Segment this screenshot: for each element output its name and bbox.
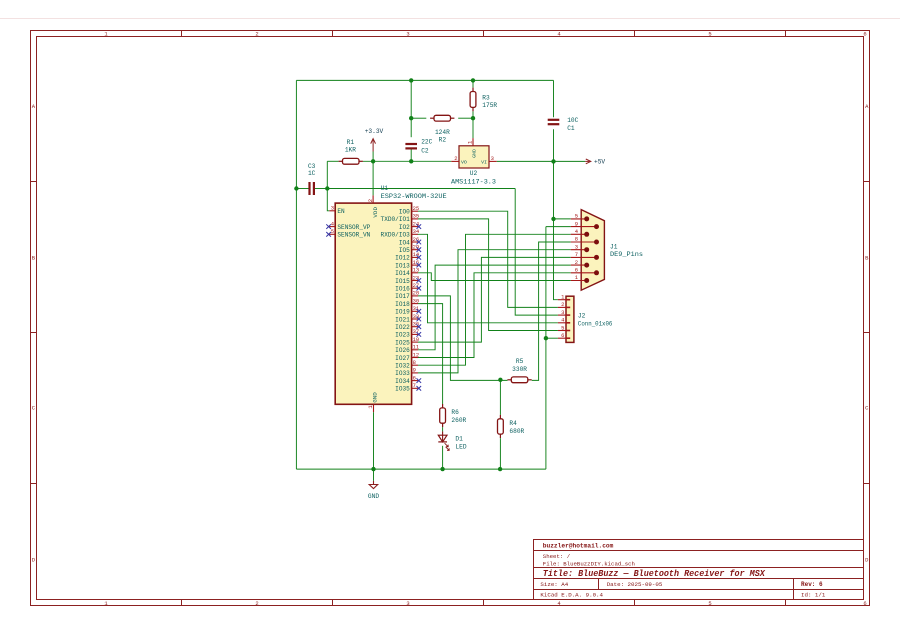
- wire R3 top stem: [472, 80, 474, 87]
- U1 right-side pins: [412, 211, 418, 388]
- wire +3.3V symbol stem: [372, 152, 374, 162]
- connector J2 Conn_01x06 body: [566, 296, 574, 342]
- junction EN node: [325, 186, 329, 190]
- no-connect U1 IO19: [417, 309, 422, 314]
- svg-text:3: 3: [406, 31, 409, 38]
- svg-text:SENSOR_VN: SENSOR_VN: [337, 232, 370, 239]
- svg-text:10C: 10C: [567, 117, 578, 124]
- svg-text:11: 11: [413, 344, 420, 351]
- resistor R6: [440, 404, 446, 427]
- U1 VDD pin top: [372, 195, 374, 203]
- svg-text:VO: VO: [461, 160, 467, 166]
- svg-text:IO27: IO27: [395, 355, 410, 362]
- svg-text:22C: 22C: [421, 138, 432, 145]
- svg-text:30: 30: [413, 297, 420, 304]
- no-connect U1 IO13: [417, 263, 422, 268]
- svg-text:ESP32-WROOM-32UE: ESP32-WROOM-32UE: [381, 193, 447, 200]
- no-connect U1 SENSOR_VP: [326, 224, 331, 229]
- junction +5V rail: [551, 159, 555, 163]
- resistor R5: [507, 377, 531, 383]
- no-connect U1 IO21: [417, 317, 422, 322]
- svg-text:IO18: IO18: [395, 301, 410, 308]
- svg-text:D1: D1: [455, 436, 463, 443]
- wire +5V down to J2 pin1: [554, 161, 558, 299]
- resistor R4: [498, 415, 504, 438]
- svg-text:IO23: IO23: [395, 332, 410, 339]
- svg-text:AMS1117-3.3: AMS1117-3.3: [451, 178, 496, 185]
- wire R2 right to R3 node: [458, 117, 473, 119]
- U2 pin 1 GND top: [472, 138, 474, 146]
- svg-text:680R: 680R: [509, 428, 524, 435]
- svg-text:IO13: IO13: [395, 262, 410, 269]
- capacitor C2: [405, 144, 417, 148]
- svg-text:LED: LED: [455, 444, 466, 451]
- wire EN to J2 pin3: [515, 189, 558, 316]
- svg-text:KiCad E.D.A. 9.0.4: KiCad E.D.A. 9.0.4: [540, 592, 603, 599]
- svg-text:1KR: 1KR: [345, 147, 356, 154]
- wire GND bottom rail: [296, 468, 546, 470]
- svg-text:12: 12: [413, 351, 420, 358]
- wire IO26 to DE9 pin2: [418, 265, 571, 350]
- wire +3.3V rail: [363, 160, 451, 162]
- power symbol GND: [369, 481, 378, 489]
- svg-text:5: 5: [708, 31, 711, 38]
- regulator U2 AMS1117-3.3 body: [459, 146, 489, 168]
- no-connect U1 IO2: [417, 224, 422, 229]
- wire R1 left drop to EN node: [326, 161, 328, 188]
- svg-text:35: 35: [413, 213, 420, 220]
- svg-text:2: 2: [561, 301, 564, 308]
- junction C2 bottom: [409, 159, 413, 163]
- svg-text:25: 25: [413, 205, 420, 212]
- wire U1 GND pin to rail: [373, 412, 375, 469]
- wire EN node down to EN pin: [327, 189, 329, 211]
- junction R5 left: [498, 378, 502, 382]
- wire C2 bottom stem: [410, 149, 412, 161]
- svg-text:IO35: IO35: [395, 386, 410, 393]
- svg-text:28: 28: [413, 290, 420, 297]
- svg-text:C2: C2: [421, 147, 429, 154]
- wire C1 top stem: [553, 80, 555, 117]
- svg-text:8: 8: [413, 359, 416, 366]
- svg-text:8: 8: [575, 236, 578, 243]
- wire R6 to D1: [442, 427, 444, 431]
- wire IO18 to R6: [418, 304, 443, 404]
- svg-text:RXD0/IO3: RXD0/IO3: [381, 232, 411, 239]
- no-connect U1 IO35: [417, 386, 422, 391]
- svg-text:R4: R4: [509, 420, 517, 427]
- svg-text:5: 5: [708, 600, 711, 607]
- svg-text:1C: 1C: [308, 170, 316, 177]
- no-connect U1 IO23: [417, 332, 422, 337]
- U1 left-side pins EN SENSOR_VP SENSOR_VN: [329, 211, 335, 235]
- svg-text:2: 2: [367, 199, 374, 202]
- wire C3 right to EN node: [315, 188, 328, 190]
- svg-text:6: 6: [561, 332, 564, 339]
- wire IO0 to J2 pin2: [418, 211, 558, 307]
- svg-text:IO32: IO32: [395, 363, 410, 370]
- capacitor C1: [548, 120, 560, 124]
- wire GND top rail: [296, 79, 553, 81]
- junction R3 top: [471, 78, 475, 82]
- svg-text:IO25: IO25: [395, 339, 410, 346]
- junction +3.3V rail: [371, 159, 375, 163]
- wire IO17 to R5 left: [418, 296, 508, 381]
- wire rail to GND symbol: [373, 469, 375, 481]
- svg-text:3: 3: [331, 205, 334, 212]
- svg-text:IO4: IO4: [399, 239, 410, 246]
- junction U1 GND: [371, 467, 375, 471]
- connector J1 pins: [571, 219, 597, 281]
- svg-text:13: 13: [413, 267, 420, 274]
- svg-text:5: 5: [331, 228, 334, 235]
- wire R1 left lead link: [327, 160, 338, 162]
- svg-text:124R: 124R: [435, 129, 450, 136]
- svg-text:IO14: IO14: [395, 270, 410, 277]
- wire C2 node to R2 left: [411, 117, 426, 119]
- svg-text:IO15: IO15: [395, 278, 410, 285]
- power symbol +3.3V: [371, 139, 376, 152]
- no-connect U1 IO12: [417, 255, 422, 260]
- led D1: [438, 431, 449, 450]
- no-connect U1 IO4: [417, 240, 422, 245]
- svg-text:Rev: 6: Rev: 6: [801, 581, 823, 588]
- svg-text:GND: GND: [472, 149, 478, 158]
- wire TXD0/IO1 to J2 pin5: [418, 219, 558, 331]
- svg-text:U1: U1: [381, 185, 389, 192]
- no-connect U1 IO16: [417, 286, 422, 291]
- svg-text:6: 6: [863, 31, 866, 38]
- svg-text:2: 2: [575, 259, 578, 266]
- wire C2 top stem: [410, 80, 412, 137]
- svg-text:6: 6: [575, 267, 578, 274]
- svg-text:3: 3: [406, 600, 409, 607]
- svg-text:Conn_01x06: Conn_01x06: [578, 320, 613, 327]
- svg-text:buzzler@hotmail.com: buzzler@hotmail.com: [543, 542, 614, 549]
- svg-text:3: 3: [491, 155, 494, 162]
- svg-text:IO21: IO21: [395, 316, 410, 323]
- svg-text:6: 6: [863, 600, 866, 607]
- svg-text:2: 2: [255, 600, 258, 607]
- svg-text:IO34: IO34: [395, 378, 410, 385]
- svg-text:9: 9: [575, 220, 578, 227]
- wire U2 VI to +5V arrow: [497, 160, 586, 162]
- svg-text:U2: U2: [470, 170, 478, 177]
- junction C2 top: [409, 78, 413, 82]
- junction R2 left: [409, 116, 413, 120]
- svg-text:VDD: VDD: [372, 207, 379, 218]
- junction D1 cathode: [440, 467, 444, 471]
- svg-text:10: 10: [413, 336, 420, 343]
- no-connect U1 SENSOR_VN: [326, 232, 331, 237]
- wire RXD0/IO3 to J2 pin4: [418, 234, 558, 322]
- wire GND to C3 left: [296, 188, 309, 190]
- svg-text:J2: J2: [578, 313, 586, 320]
- wire D1 to GND rail: [442, 446, 444, 469]
- svg-text:Title: BlueBuzz — Bluetooth Re: Title: BlueBuzz — Bluetooth Receiver for…: [543, 569, 766, 579]
- svg-text:Size: A4: Size: A4: [540, 581, 568, 588]
- svg-text:J1: J1: [610, 244, 618, 251]
- junction J2 pin6: [544, 336, 548, 340]
- ic U1 ESP32-WROOM-32UE body: [335, 203, 411, 404]
- wire R3 bottom to U2 pin1: [472, 111, 474, 138]
- svg-text:+5V: +5V: [594, 159, 605, 166]
- no-connect U1 IO15: [417, 278, 422, 283]
- wire C1 bottom stem: [553, 129, 555, 161]
- capacitor C3: [310, 182, 314, 195]
- resistor R3: [470, 88, 476, 112]
- svg-text:34: 34: [413, 228, 420, 235]
- U2 pin 3 VI: [489, 160, 497, 162]
- svg-text:SENSOR_VP: SENSOR_VP: [337, 224, 370, 231]
- svg-text:IO12: IO12: [395, 255, 410, 262]
- no-connect U1 IO34: [417, 378, 422, 383]
- svg-text:175R: 175R: [482, 102, 497, 109]
- svg-text:EN: EN: [337, 208, 345, 215]
- wire GND vertical to DE9 pin9: [545, 227, 547, 470]
- svg-text:R2: R2: [439, 136, 447, 143]
- wire IO33 to DE9 pin3: [418, 250, 571, 373]
- svg-text:IO17: IO17: [395, 293, 410, 300]
- svg-text:330R: 330R: [512, 366, 527, 373]
- svg-text:7: 7: [575, 251, 578, 258]
- svg-text:R6: R6: [451, 409, 459, 416]
- wire IO32 to DE9 pin4: [418, 234, 571, 365]
- U1 GND pin bottom: [373, 404, 375, 412]
- wire IO14 to DE9 pin1: [418, 273, 571, 281]
- svg-text:IO33: IO33: [395, 370, 410, 377]
- svg-text:C3: C3: [308, 163, 316, 170]
- svg-text:9: 9: [413, 367, 416, 374]
- svg-text:5: 5: [561, 324, 564, 331]
- svg-text:R5: R5: [516, 358, 524, 365]
- svg-text:IO22: IO22: [395, 324, 410, 331]
- wire GND left vertical: [295, 80, 297, 469]
- wire IO27 to DE9 pin6: [418, 273, 571, 358]
- connector J2 pins: [558, 300, 570, 339]
- svg-text:3: 3: [575, 243, 578, 250]
- wire +3.3V to U1 VDD: [372, 161, 374, 195]
- no-connect U1 IO5: [417, 247, 422, 252]
- no-connect U1 IO22: [417, 324, 422, 329]
- svg-text:6: 6: [413, 374, 416, 381]
- svg-text:IO26: IO26: [395, 347, 410, 354]
- wire +5V to DE9 pin5: [554, 218, 571, 220]
- wire R4 bottom to GND rail: [499, 438, 501, 469]
- wire EN node east run: [327, 188, 515, 190]
- resistor R2: [430, 115, 454, 121]
- svg-text:IO5: IO5: [399, 247, 410, 254]
- svg-text:3: 3: [561, 309, 564, 316]
- junction C3 left: [294, 186, 298, 190]
- wire R5 right to DE9 pin8: [532, 242, 571, 380]
- svg-text:IO16: IO16: [395, 286, 410, 293]
- svg-text:5: 5: [575, 213, 578, 220]
- wire R5 node down to R4: [499, 380, 501, 415]
- wire GND to J2 pin6: [546, 337, 558, 339]
- svg-text:File: BlueBuzzDIY.kicad_sch: File: BlueBuzzDIY.kicad_sch: [543, 561, 635, 568]
- svg-text:Date: 2025-09-05: Date: 2025-09-05: [607, 581, 663, 588]
- svg-text:7: 7: [413, 382, 416, 389]
- resistor R1: [339, 158, 363, 164]
- svg-text:DE9_Pins: DE9_Pins: [610, 251, 643, 258]
- junction R2 right: [471, 116, 475, 120]
- svg-text:2: 2: [454, 155, 457, 162]
- svg-text:260R: 260R: [451, 417, 466, 424]
- svg-text:Id: 1/1: Id: 1/1: [801, 592, 826, 599]
- svg-text:GND: GND: [368, 493, 379, 500]
- svg-text:VI: VI: [481, 160, 487, 166]
- svg-text:IO0: IO0: [399, 209, 410, 216]
- junction DE9 pin5: [551, 217, 555, 221]
- svg-text:IO2: IO2: [399, 224, 410, 231]
- svg-text:2: 2: [255, 31, 258, 38]
- title block: [534, 540, 864, 600]
- junction R4 bottom: [498, 467, 502, 471]
- svg-text:GND: GND: [371, 392, 378, 403]
- connector J1 DE9 body: [581, 210, 604, 291]
- power symbol +5V: [585, 159, 591, 164]
- wire GND to DE9 pin9: [546, 226, 571, 228]
- wire IO25 to DE9 pin7: [418, 257, 571, 342]
- svg-text:C1: C1: [567, 125, 575, 132]
- svg-text:Sheet: /: Sheet: /: [543, 553, 571, 560]
- svg-text:R3: R3: [482, 94, 490, 101]
- svg-text:IO19: IO19: [395, 309, 410, 316]
- U2 pin 2 VO: [451, 160, 459, 162]
- svg-text:TXD0/IO1: TXD0/IO1: [381, 216, 411, 223]
- svg-text:R1: R1: [347, 139, 355, 146]
- svg-text:+3.3V: +3.3V: [365, 128, 384, 135]
